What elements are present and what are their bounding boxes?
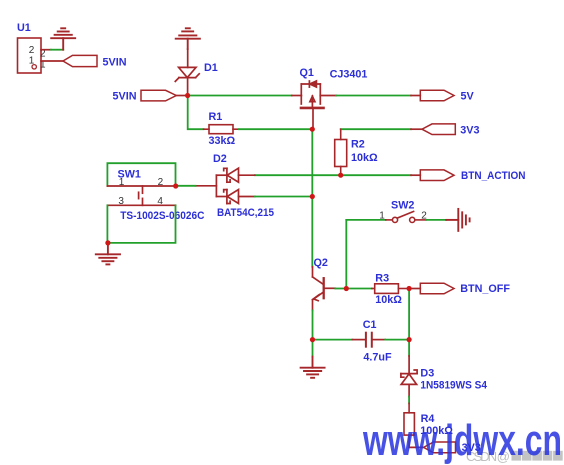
switch SW1 body [107,186,175,205]
wire SW2 left [346,219,385,221]
svg-text:R2: R2 [351,138,365,150]
wire U1 pin2 to ground [51,49,63,51]
node gate junction [310,127,315,132]
transistor Q1 (P-MOSFET) [292,81,337,127]
BTN_ACTION port lead [411,174,420,176]
wire C1 left [313,339,353,341]
svg-text:5VIN: 5VIN [113,90,137,102]
svg-text:Q1: Q1 [300,67,314,79]
wire C1 right down to D3 [408,340,410,356]
port 5VIN (U1) [63,55,97,66]
wire Q1 drain to 5V port [336,95,411,97]
svg-text:D1: D1 [204,62,218,74]
U1 pin 1 stub [41,60,63,62]
ground GND-SW1 [96,243,120,265]
5V port lead [411,95,420,97]
port 5V [420,90,454,101]
wire SW1 pin2 to D2 [176,185,196,187]
wire VIN to Q1 source [188,95,292,97]
port BTN_OFF [420,283,454,294]
port 3V3 (bottom) [424,442,456,453]
svg-text:2: 2 [29,45,35,56]
svg-text:BAT54C,215: BAT54C,215 [217,207,274,219]
svg-text:R1: R1 [209,111,223,123]
diode D2 (BAT54C dual schottky) [196,168,255,203]
svg-text:R3: R3 [375,272,389,284]
wire C1 right [385,339,409,341]
svg-text:U1: U1 [17,22,31,34]
svg-text:Q2: Q2 [314,257,328,269]
ground GND-D1 (inverted) [176,28,200,49]
U1 pin1 marker circle [32,65,36,69]
svg-text:5VIN: 5VIN [103,56,127,68]
svg-text:4.7uF: 4.7uF [363,352,392,364]
svg-text:10kΩ: 10kΩ [351,152,378,164]
transistor Q2 [313,267,336,311]
svg-text:BTN_ACTION: BTN_ACTION [461,170,526,182]
ground GND-U1 (inverted) [51,28,75,49]
node SW2/base junction [344,286,349,291]
U1 pin 2 stub [41,49,51,51]
resistor R3 [372,284,409,294]
wire gate node down to Q2 collector [311,129,313,267]
wire SW1 pin1-pin2 loop [107,163,175,186]
svg-text:1: 1 [379,210,385,221]
node R3 right junction [407,286,412,291]
wire SW2 right to ground [426,219,446,221]
wire Q2 base to node [335,288,346,290]
svg-text:2: 2 [158,177,164,188]
svg-text:www.jdwx.cn: www.jdwx.cn [362,416,562,465]
wire port to node VIN [176,95,186,97]
wire R3 node down [408,289,410,340]
zener diode D1 [175,49,199,96]
svg-text:5V: 5V [461,91,475,103]
node SW1 ground junction [105,240,110,245]
wire base node to R3 [346,288,372,290]
port BTN_ACTION [420,170,454,181]
3V3 port lead [411,128,422,130]
wire R1 to gate node [239,128,312,130]
svg-text:1N5819WS S4: 1N5819WS S4 [420,379,487,391]
svg-text:BTN_OFF: BTN_OFF [460,283,510,295]
wire R2 top to 3V3 [341,128,411,130]
svg-text:D2: D2 [213,153,227,165]
connector U1 body [18,38,42,73]
svg-text:4: 4 [157,196,163,207]
wire C1 left to ground [312,340,314,357]
wire Q2 emitter down [312,310,314,339]
capacitor C1 [352,333,385,347]
wire SW2 left down to Q2 base row [345,220,347,289]
watermark CSDN gray [466,449,563,464]
ground GND-C1 [301,357,325,378]
svg-text:CJ3401: CJ3401 [330,68,368,80]
wire R4 to bottom port [409,446,424,448]
svg-text:33kΩ: 33kΩ [209,135,236,147]
wire D3 to R4 [408,397,410,404]
ground GND-SW2 (rotated) [446,209,469,231]
BTN_OFF port lead [409,288,420,290]
node SW1 pin2 junction [173,183,178,188]
wire SW1 pin3-pin4 loop [107,205,175,243]
svg-text:D3: D3 [420,367,434,379]
node C1 left junction [310,337,315,342]
diode D3 (schottky) [401,356,417,397]
node C1 right junction [407,337,412,342]
svg-text:3V3: 3V3 [460,124,479,136]
switch SW2 [386,211,426,222]
resistor R2 [335,129,347,175]
resistor R4 [404,403,414,447]
wire D2 lower anode to gate line [255,196,312,198]
svg-text:1: 1 [119,177,125,188]
svg-text:SW2: SW2 [391,200,414,212]
svg-text:C1: C1 [363,319,377,331]
node VIN junction [185,93,190,98]
wire VIN down [188,96,204,130]
wire D2 upper anode to BTN_ACTION [255,174,411,176]
port 5VIN (input) [141,90,176,101]
node D2 lower junction [310,194,315,199]
resistor R1 [204,125,239,134]
port 3V3 [422,124,455,135]
svg-text:3: 3 [118,196,124,207]
node R2 bottom junction [338,173,343,178]
svg-text:TS-1002S-06026C: TS-1002S-06026C [120,210,204,222]
svg-text:10kΩ: 10kΩ [375,294,402,306]
